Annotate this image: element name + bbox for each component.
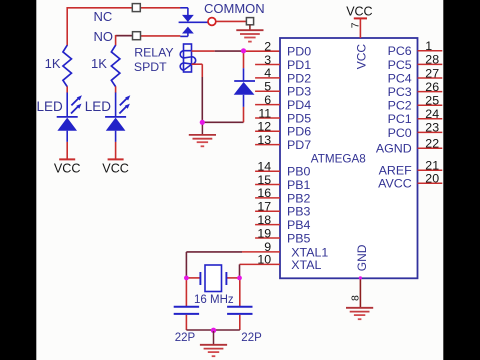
- svg-text:PD2: PD2: [287, 71, 311, 85]
- svg-text:VCC: VCC: [355, 44, 369, 70]
- svg-text:15: 15: [257, 173, 271, 187]
- svg-text:PD4: PD4: [287, 98, 311, 112]
- svg-text:AVCC: AVCC: [378, 177, 412, 191]
- svg-text:1K: 1K: [91, 56, 107, 71]
- svg-text:LED: LED: [85, 99, 112, 114]
- svg-text:PD7: PD7: [287, 138, 311, 152]
- svg-text:26: 26: [425, 80, 439, 94]
- svg-text:VCC: VCC: [54, 161, 81, 175]
- svg-text:PB4: PB4: [287, 218, 311, 232]
- svg-text:16 MHz: 16 MHz: [194, 294, 234, 306]
- svg-text:AGND: AGND: [376, 142, 412, 156]
- svg-text:8: 8: [349, 295, 361, 301]
- svg-text:3: 3: [264, 53, 271, 67]
- svg-text:PB2: PB2: [287, 191, 311, 205]
- svg-text:PC0: PC0: [388, 126, 412, 140]
- svg-text:SPDT: SPDT: [134, 60, 167, 74]
- svg-text:2: 2: [264, 40, 271, 54]
- svg-text:7: 7: [350, 22, 362, 28]
- svg-text:PC6: PC6: [388, 44, 412, 58]
- svg-text:PD5: PD5: [287, 111, 311, 125]
- svg-text:NC: NC: [94, 9, 113, 24]
- svg-text:23: 23: [425, 121, 439, 135]
- svg-text:COMMON: COMMON: [204, 1, 265, 16]
- svg-text:PD1: PD1: [287, 58, 311, 72]
- svg-text:VCC: VCC: [102, 161, 129, 175]
- svg-text:17: 17: [257, 200, 271, 214]
- svg-text:PD0: PD0: [287, 45, 311, 59]
- svg-text:22: 22: [425, 137, 439, 151]
- svg-text:6: 6: [264, 93, 271, 107]
- svg-text:14: 14: [257, 160, 271, 174]
- svg-text:1K: 1K: [45, 56, 61, 71]
- svg-text:XTAL: XTAL: [291, 258, 321, 272]
- svg-text:16: 16: [257, 186, 271, 200]
- svg-text:PD6: PD6: [287, 125, 311, 139]
- svg-text:24: 24: [425, 107, 439, 121]
- svg-text:PC2: PC2: [388, 99, 412, 113]
- svg-text:PC3: PC3: [388, 85, 412, 99]
- svg-text:NO: NO: [94, 29, 114, 44]
- svg-text:5: 5: [264, 80, 271, 94]
- svg-text:PC1: PC1: [388, 112, 412, 126]
- svg-text:PC4: PC4: [388, 71, 412, 85]
- svg-text:PD3: PD3: [287, 85, 311, 99]
- svg-text:LED: LED: [37, 99, 64, 114]
- svg-text:4: 4: [264, 66, 271, 80]
- svg-text:1: 1: [425, 39, 432, 53]
- svg-text:20: 20: [425, 172, 439, 186]
- svg-text:PB5: PB5: [287, 231, 311, 245]
- svg-text:RELAY: RELAY: [134, 46, 173, 60]
- svg-text:PC5: PC5: [388, 58, 412, 72]
- svg-text:19: 19: [257, 226, 271, 240]
- svg-text:ATMEGA8: ATMEGA8: [311, 153, 366, 166]
- svg-text:21: 21: [425, 159, 439, 173]
- svg-text:PB3: PB3: [287, 205, 311, 219]
- svg-text:PB1: PB1: [287, 178, 311, 192]
- svg-text:AREF: AREF: [379, 164, 412, 178]
- svg-text:PB0: PB0: [287, 165, 311, 179]
- svg-text:28: 28: [425, 53, 439, 67]
- svg-text:22P: 22P: [241, 332, 262, 344]
- svg-text:13: 13: [257, 133, 271, 147]
- svg-text:18: 18: [257, 213, 271, 227]
- svg-text:27: 27: [425, 66, 439, 80]
- svg-text:VCC: VCC: [346, 5, 372, 19]
- svg-text:22P: 22P: [175, 332, 196, 344]
- svg-text:25: 25: [425, 94, 439, 108]
- svg-text:11: 11: [258, 106, 271, 120]
- svg-text:GND: GND: [355, 244, 369, 271]
- svg-text:12: 12: [257, 120, 271, 134]
